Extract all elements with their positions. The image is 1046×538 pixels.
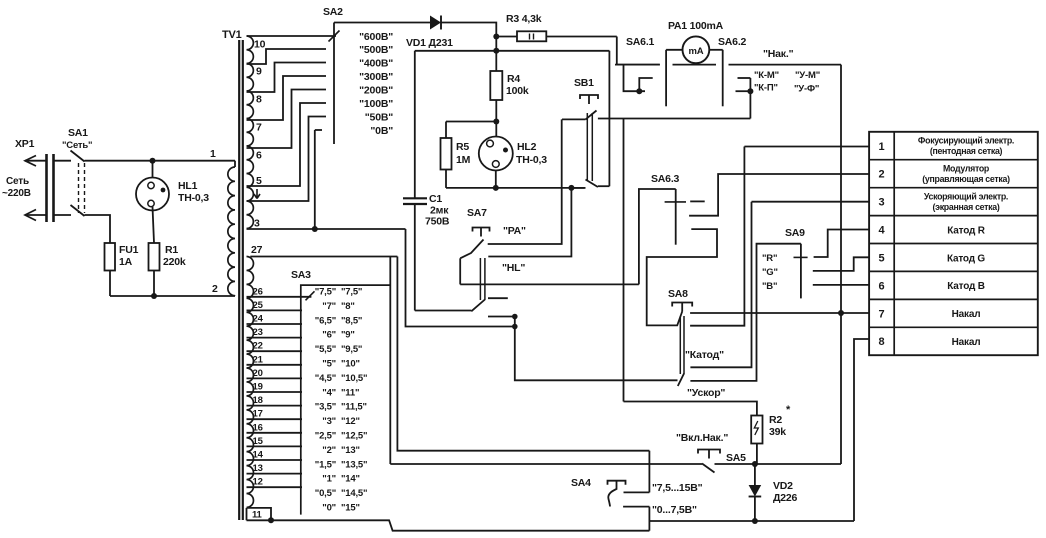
switch SA7 upper wiper [460, 240, 483, 259]
svg-text:"0В": "0В" [370, 125, 393, 137]
XP1 plug bar 1 [45, 154, 48, 222]
svg-text:1А: 1А [119, 256, 133, 268]
svg-text:"600В": "600В" [359, 31, 393, 43]
svg-text:"13": "13" [341, 445, 360, 456]
wire tap9 to SA2 row [247, 49, 327, 64]
node junction R3 [493, 34, 499, 40]
button SB1 actuator [580, 95, 598, 99]
svg-text:Д226: Д226 [773, 492, 798, 504]
capacitor C1 [414, 51, 416, 199]
svg-text:20: 20 [253, 368, 263, 379]
svg-text:"1,5": "1,5" [315, 459, 336, 470]
svg-text:(управляющая сетка): (управляющая сетка) [922, 174, 1010, 184]
fuse FU1 [105, 243, 116, 271]
svg-text:"1": "1" [322, 474, 336, 485]
svg-text:"6,5": "6,5" [315, 315, 336, 326]
wire SB1 upper contact to SA6.2 [598, 118, 751, 120]
svg-text:"10,5": "10,5" [341, 373, 367, 384]
svg-text:"Сеть": "Сеть" [62, 140, 92, 151]
switch SA5 actuator [698, 450, 720, 454]
svg-text:9: 9 [256, 66, 262, 78]
svg-text:8: 8 [879, 336, 885, 348]
svg-text:10: 10 [254, 39, 266, 51]
svg-text:3: 3 [879, 197, 885, 209]
wire bottom FU1-R1-TV1 pin2 [110, 295, 235, 297]
wire SA7 lower contact stub [488, 316, 515, 318]
svg-text:Модулятор: Модулятор [943, 163, 990, 173]
svg-text:16: 16 [253, 422, 263, 433]
switch SA6.3 feed [639, 189, 676, 284]
svg-text:mA: mA [689, 46, 704, 57]
svg-text:Катод В: Катод В [947, 281, 984, 292]
node junction tap11 rail [268, 517, 274, 523]
node junction SB1 lower feed [568, 185, 574, 191]
svg-text:(экранная сетка): (экранная сетка) [933, 202, 1000, 212]
wire tap25 [247, 309, 303, 311]
wire tap24 [247, 323, 303, 325]
wire row7 line [690, 312, 869, 314]
wire SA6.3 to row2 [689, 174, 869, 216]
wire C1 top rail [415, 50, 497, 52]
wire rail 51 to SB1 contact [496, 50, 609, 52]
svg-text:"500В": "500В" [359, 44, 393, 56]
svg-text:"7,5...15В": "7,5...15В" [652, 482, 703, 494]
svg-text:26: 26 [253, 286, 263, 297]
switch SA6.2 wiper hook [738, 77, 751, 79]
wire tap20 [247, 377, 303, 379]
switch SA6.3 contact dash [690, 200, 705, 202]
svg-text:R3 4,3k: R3 4,3k [506, 13, 542, 25]
svg-text:"К-П": "К-П" [754, 83, 778, 94]
svg-text:21: 21 [253, 354, 264, 365]
CRT pin table column divider [893, 132, 895, 355]
switch SA1 pole 1 [71, 151, 85, 162]
resistor R4 [495, 51, 497, 71]
TV1 upper secondary winding [247, 36, 254, 229]
svg-text:27: 27 [251, 244, 263, 256]
wire SA4 upper contact [624, 491, 650, 493]
svg-text:"4": "4" [322, 387, 336, 398]
XP1 arrow bottom [25, 210, 36, 221]
TV1 tap4 arrow [254, 189, 260, 199]
svg-text:8: 8 [256, 94, 262, 106]
svg-text:"2,5": "2,5" [315, 431, 336, 442]
svg-text:7: 7 [879, 308, 885, 320]
wire SA3 common down [389, 257, 391, 465]
svg-text:"Вкл.Нак.": "Вкл.Нак." [676, 432, 728, 444]
svg-text:"Нак.": "Нак." [763, 48, 794, 60]
switch SA8 lower wiper [678, 374, 684, 387]
svg-text:"300В": "300В" [359, 71, 393, 83]
wire SB1 upper feed [562, 118, 586, 120]
svg-text:7: 7 [256, 122, 262, 134]
switch SA6.3 common [675, 189, 677, 245]
wire tap3 0В line to C1 area [247, 228, 406, 230]
wire VD1 to R3 junction [441, 23, 496, 51]
switch SA7 actuator [473, 228, 490, 232]
CRT pin table row line 2 [869, 187, 1038, 189]
switch SA6.1 wiper hook [639, 78, 652, 91]
svg-text:SA6.1: SA6.1 [626, 36, 655, 48]
wire R5 top [446, 121, 496, 123]
svg-text:"15": "15" [341, 503, 360, 514]
wire tap21 [247, 364, 303, 366]
wire SB1 contact to rail51 [608, 51, 610, 186]
wire SB1 lower feed stub [571, 187, 585, 189]
XP1 arrow top [25, 156, 36, 167]
svg-text:"R": "R" [762, 253, 777, 264]
wire SA8 contact to row3 [690, 202, 751, 368]
svg-text:SA6.3: SA6.3 [651, 173, 680, 185]
wire SA1 to TV1 pin1 [85, 160, 236, 162]
node junction VD2 bottom [752, 518, 758, 524]
wire row8 connection [854, 339, 869, 521]
wire tap19 [247, 391, 303, 393]
wire SA7 free contact stub [488, 297, 508, 299]
svg-text:1: 1 [879, 141, 885, 153]
switch SA6.3 wiper mark [665, 201, 686, 203]
wire 0В feed [314, 130, 316, 229]
svg-text:"РА": "РА" [503, 225, 526, 237]
lamp HL1 [136, 178, 169, 211]
svg-text:6: 6 [256, 150, 262, 162]
button SB1 upper wiper [586, 111, 597, 120]
switch SA9 common [800, 244, 802, 299]
resistor R5 [441, 138, 452, 170]
switch SA4 wiper [608, 489, 616, 507]
node junction R1 bottom [151, 293, 157, 299]
svg-text:SA7: SA7 [467, 207, 487, 219]
TV1 lower secondary winding [247, 257, 254, 508]
svg-text:"5,5": "5,5" [315, 344, 336, 355]
wire tap27 to SA4 upper [397, 257, 649, 451]
svg-text:РА1 100mA: РА1 100mA [668, 20, 724, 32]
wire tap5 to SA2 row [247, 103, 327, 186]
svg-text:"50В": "50В" [365, 112, 393, 124]
TV1 primary winding [234, 161, 236, 167]
wire tap17 [247, 418, 303, 420]
svg-text:100k: 100k [506, 85, 529, 97]
svg-text:"0,5": "0,5" [315, 488, 336, 499]
svg-text:6: 6 [879, 280, 885, 292]
resistor R3 [496, 36, 517, 38]
lamp HL2 [479, 137, 513, 171]
svg-text:"14,5": "14,5" [341, 488, 367, 499]
wire tap11 hook [247, 508, 272, 520]
wire bottom rail right [649, 520, 854, 522]
CRT pin table row line 7 [869, 326, 1038, 328]
svg-text:"У-Ф": "У-Ф" [794, 84, 819, 95]
svg-text:5: 5 [879, 252, 885, 264]
svg-text:"К-М": "К-М" [754, 70, 779, 81]
svg-text:"11,5": "11,5" [341, 402, 367, 413]
svg-text:Ускоряющий электр.: Ускоряющий электр. [924, 191, 1008, 201]
svg-text:VD2: VD2 [773, 480, 793, 492]
wire SA6.3 to SA8 feed [647, 229, 717, 325]
XP1 plug bar 2 [52, 154, 55, 222]
node junction R4 top [493, 48, 499, 54]
svg-text:HL1: HL1 [178, 180, 198, 192]
svg-text:"11": "11" [341, 387, 359, 398]
node junction SA6.1 common [636, 88, 642, 94]
wire SA4 lower contact [623, 506, 649, 508]
wire tap10 to SA2 600В row [247, 35, 337, 37]
svg-text:SA2: SA2 [323, 6, 343, 18]
wire tap13 [247, 473, 303, 475]
wire SA7 PA contact [488, 119, 562, 244]
svg-text:25: 25 [253, 300, 264, 311]
svg-text:Катод G: Катод G [947, 253, 985, 264]
svg-text:220k: 220k [163, 256, 186, 268]
svg-text:"200В": "200В" [359, 85, 393, 97]
svg-text:XP1: XP1 [15, 138, 35, 150]
node junction contact line [512, 324, 518, 330]
wire tap6 to SA2 row [247, 90, 327, 149]
svg-text:"13,5": "13,5" [341, 459, 367, 470]
svg-text:3: 3 [254, 218, 260, 230]
wire SB1 lower contact [598, 185, 610, 187]
svg-text:"7,5": "7,5" [315, 287, 336, 298]
svg-text:"6": "6" [322, 330, 336, 341]
svg-text:SA1: SA1 [68, 127, 88, 139]
wire winding bottom to rail [246, 508, 248, 520]
wire SA8 contact to SA9 [690, 244, 801, 381]
svg-text:SB1: SB1 [574, 77, 594, 89]
svg-text:23: 23 [253, 327, 263, 338]
svg-text:"G": "G" [762, 267, 778, 278]
svg-text:С1: С1 [429, 193, 442, 205]
node junction HL2 bottom [493, 185, 499, 191]
switch SA6.2 common [749, 78, 751, 119]
svg-text:750В: 750В [425, 216, 450, 228]
svg-text:"9,5": "9,5" [341, 344, 362, 355]
svg-text:"7,5": "7,5" [341, 287, 362, 298]
CRT pin table row line 4 [869, 243, 1038, 245]
wire tap14 [247, 459, 303, 461]
wire tap15 [247, 445, 303, 447]
wire tap4 to SA2 row [247, 117, 327, 202]
wire SA7 feed long line to SA6.3 [460, 283, 639, 285]
node junction 0В feed [312, 226, 318, 232]
button SB1 lower wiper [586, 180, 598, 188]
wire tap23 [247, 337, 303, 339]
svg-text:5: 5 [256, 175, 262, 187]
svg-text:ТН-0,3: ТН-0,3 [178, 192, 209, 204]
wire tap16 [247, 432, 303, 434]
wire XP1 top to SA1 [54, 160, 72, 162]
node junction SA6.2 common [747, 88, 753, 94]
wire tap18 [247, 405, 303, 407]
button SB1 link [586, 113, 588, 181]
svg-text:TV1: TV1 [222, 29, 242, 41]
wire SA6.2 row [673, 64, 717, 66]
node junction VD2 top [752, 461, 758, 467]
svg-text:"3": "3" [322, 416, 336, 427]
svg-text:ТН-0,3: ТН-0,3 [516, 154, 547, 166]
wire SA8 contact to row1 [690, 147, 744, 326]
wire tap7 to SA2 row [247, 76, 327, 120]
svg-text:1: 1 [210, 148, 216, 160]
wire SA2 to VD1 [334, 22, 430, 24]
svg-text:"12,5": "12,5" [341, 431, 367, 442]
svg-text:"В": "В" [762, 281, 777, 292]
svg-text:SA8: SA8 [668, 288, 688, 300]
svg-text:2: 2 [879, 169, 885, 181]
diode VD1 [430, 16, 441, 30]
svg-text:"10": "10" [341, 359, 360, 370]
wire row3 line [752, 201, 870, 203]
svg-text:1М: 1М [456, 154, 471, 166]
node junction HL1 top [150, 158, 156, 164]
CRT pin table row line 5 [869, 270, 1038, 272]
wire tap27 line [250, 256, 397, 258]
switch SA8 link [679, 316, 681, 374]
CRT pin table frame [869, 132, 1038, 355]
switch SA1 pole 2 [71, 205, 85, 216]
svg-text:"0...7,5В": "0...7,5В" [652, 504, 697, 516]
wire SA7 upper feed down [459, 258, 461, 284]
wire R5-HL2 bottom line [446, 187, 585, 189]
svg-text:"НL": "НL" [502, 262, 525, 274]
svg-text:"400В": "400В" [359, 58, 393, 70]
switch SA1 link [78, 163, 80, 213]
resistor R2 bolt [754, 421, 758, 435]
wire SA5 line left [390, 463, 702, 465]
svg-text:22: 22 [253, 341, 263, 352]
wire XP1 bottom to SA1 [54, 214, 72, 216]
node junction SA7 contact [512, 314, 518, 320]
svg-text:14: 14 [253, 450, 264, 461]
svg-text:"0": "0" [322, 503, 336, 514]
svg-text:"8,5": "8,5" [341, 315, 362, 326]
wire tap22 [247, 350, 303, 352]
meter PA1 right lead [709, 49, 722, 51]
svg-text:"9": "9" [341, 330, 355, 341]
svg-text:11: 11 [252, 510, 263, 521]
wire SA7 HL contact [488, 188, 571, 257]
switch SA3 box [301, 285, 391, 514]
node junction row7 [838, 310, 844, 316]
svg-text:SA9: SA9 [785, 227, 805, 239]
switch SA8 upper wiper [677, 312, 682, 327]
wire SA9 G contact to row5 [813, 257, 869, 271]
wire SA6.1 row left [615, 64, 660, 66]
switch SA4 actuator [608, 481, 626, 485]
switch SA3 wiper mark [306, 291, 315, 300]
svg-text:(пентодная сетка): (пентодная сетка) [930, 146, 1003, 156]
svg-text:~220В: ~220В [2, 188, 31, 199]
switch SA8 actuator [672, 303, 692, 307]
svg-text:"100В": "100В" [359, 98, 393, 110]
svg-text:"14": "14" [341, 474, 360, 485]
CRT pin table row line 6 [869, 298, 1038, 300]
svg-text:"7": "7" [322, 301, 336, 312]
svg-text:2: 2 [212, 283, 218, 295]
svg-text:SA3: SA3 [291, 269, 311, 281]
meter PA1 left lead [666, 49, 682, 51]
svg-text:Накал: Накал [952, 337, 981, 348]
wire bottom rail left [247, 520, 650, 530]
wire SA6 vertical to R2 line [623, 119, 625, 402]
svg-text:13: 13 [253, 463, 263, 474]
wire 0В line to SA7 contact [406, 229, 515, 327]
wire SA6.1 common drop [624, 65, 646, 92]
svg-text:Сеть: Сеть [6, 176, 29, 187]
svg-text:24: 24 [253, 314, 264, 325]
svg-text:SA6.2: SA6.2 [718, 36, 747, 48]
svg-text:Накал: Накал [952, 309, 981, 320]
svg-text:HL2: HL2 [517, 141, 537, 153]
wire Нак vertical [840, 65, 842, 464]
svg-text:Фокусирующий электр.: Фокусирующий электр. [918, 136, 1014, 146]
CRT pin table row line 1 [869, 159, 1038, 161]
svg-text:VD1 Д231: VD1 Д231 [406, 37, 453, 49]
svg-text:"4,5": "4,5" [315, 373, 336, 384]
svg-text:"2": "2" [322, 445, 336, 456]
wire tap26 [247, 296, 312, 298]
svg-text:"5": "5" [322, 359, 336, 370]
switch SA7 link [479, 258, 481, 300]
switch SA2 common [333, 23, 335, 145]
wire tap12 [247, 486, 303, 488]
wire SA9 R contact to row4 [814, 230, 870, 258]
svg-text:R4: R4 [507, 73, 520, 85]
switch SA2 wiper mark [329, 31, 340, 42]
svg-text:"12": "12" [341, 416, 360, 427]
wire SA5 line right [715, 463, 842, 465]
svg-text:R1: R1 [165, 244, 178, 256]
svg-text:"Катод": "Катод" [685, 349, 724, 361]
svg-text:SA4: SA4 [571, 477, 591, 489]
svg-text:18: 18 [253, 395, 263, 406]
switch SA7 lower wiper [471, 300, 485, 312]
diode VD2 [754, 464, 756, 485]
svg-text:"8": "8" [341, 301, 355, 312]
wire SA7 lower feed from C1 [415, 310, 472, 312]
svg-text:FU1: FU1 [119, 244, 139, 256]
svg-text:Катод R: Катод R [947, 225, 985, 236]
wire R3 to SA6.1 [617, 37, 660, 65]
wire row1 line [744, 146, 869, 148]
resistor R2 [624, 402, 757, 416]
svg-text:"3,5": "3,5" [315, 402, 336, 413]
svg-text:SA5: SA5 [726, 452, 746, 464]
switch SA9 wiper mark [794, 256, 808, 258]
wire tap8 to SA2 row [247, 63, 327, 93]
meter PA1 [683, 36, 710, 63]
wire SA9 B contact to row6 [813, 284, 869, 286]
svg-text:19: 19 [253, 382, 263, 393]
switch SA5 wiper [702, 464, 715, 473]
svg-text:39k: 39k [769, 426, 786, 438]
svg-text:R2: R2 [769, 414, 782, 426]
svg-text:"Ускор": "Ускор" [687, 387, 725, 399]
wire SA7 contact down to SA8 feed [515, 317, 678, 381]
resistor R1 [149, 243, 160, 271]
svg-text:15: 15 [253, 436, 264, 447]
svg-text:12: 12 [253, 477, 263, 488]
wire SA1 bottom to FU1 [85, 215, 111, 243]
CRT pin table row line 3 [869, 215, 1038, 217]
svg-text:"У-М": "У-М" [795, 70, 820, 81]
node junction R5 top [493, 119, 499, 125]
svg-text:17: 17 [253, 409, 263, 420]
TV1 core [238, 40, 240, 520]
svg-text:R5: R5 [456, 141, 469, 153]
